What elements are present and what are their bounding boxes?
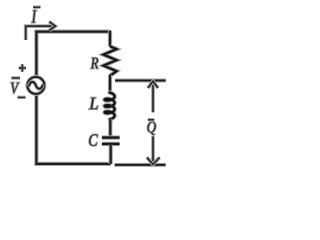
overbar of I — [33, 5, 41, 9]
wire R to L — [108, 75, 112, 92]
wire left upper — [34, 44, 38, 77]
label L — [89, 98, 98, 110]
inductor L — [105, 93, 115, 120]
wire C to bottom — [109, 145, 113, 164]
overbar of Q — [148, 118, 155, 122]
current arrowhead — [49, 22, 55, 31]
Q arrow shaft lower — [151, 136, 155, 164]
AC source sine — [29, 82, 43, 89]
label C — [89, 134, 98, 146]
Q ref line bottom — [115, 163, 166, 167]
wire L to C — [108, 119, 112, 138]
Q ref line top — [115, 78, 166, 82]
capacitor C top plate — [102, 135, 120, 139]
plus sign — [19, 64, 26, 71]
resistor R — [103, 46, 116, 75]
wire left lower — [36, 94, 110, 164]
wire right upper — [108, 31, 112, 47]
minus sign — [18, 96, 26, 100]
Q arrow shaft upper — [151, 82, 155, 113]
label Q — [147, 122, 155, 135]
wire top — [36, 32, 110, 45]
overbar of V — [11, 76, 20, 80]
AC source circle — [27, 77, 44, 94]
current arrow — [26, 26, 55, 40]
label R — [91, 58, 99, 69]
capacitor C bottom plate — [102, 142, 120, 146]
label I — [32, 10, 37, 22]
Q arrowhead down — [147, 157, 160, 164]
label V — [11, 83, 20, 94]
Q arrowhead up — [148, 81, 158, 88]
